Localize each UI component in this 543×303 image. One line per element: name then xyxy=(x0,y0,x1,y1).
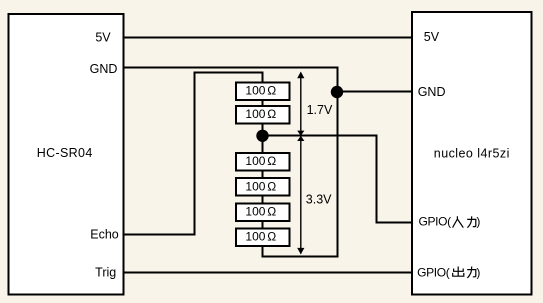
wire Echo (right, up, right into top of divider) xyxy=(123,73,263,235)
svg-text:100Ω: 100Ω xyxy=(245,154,276,168)
node junction dot at divider tap xyxy=(256,130,268,142)
svg-text:nucleo l4r5zi: nucleo l4r5zi xyxy=(434,146,510,160)
nucleo l4r5zi board U2 xyxy=(412,12,532,295)
wire divider interconnects (vertical at x=262.3) xyxy=(262,100,264,230)
svg-text:GND: GND xyxy=(418,85,446,99)
svg-text:Echo: Echo xyxy=(90,228,119,242)
svg-text:5V: 5V xyxy=(95,31,111,45)
wire 5V (HC-SR04 5V to nucleo 5V) xyxy=(123,37,412,39)
svg-text:): ) xyxy=(476,214,480,228)
resistor R5 100ohm xyxy=(236,204,290,222)
svg-text:1.7V: 1.7V xyxy=(307,103,333,117)
svg-text:HC-SR04: HC-SR04 xyxy=(37,146,93,160)
svg-text:GND: GND xyxy=(90,62,118,76)
svg-text:5V: 5V xyxy=(424,30,440,44)
resistor R3 100ohm xyxy=(236,153,290,171)
resistor R2 100ohm xyxy=(236,106,290,124)
dimension arrow 1.7V (Echo level to tap level) xyxy=(297,72,304,136)
pin label GPIO(input) xyxy=(419,214,481,228)
pin label GPIO(output) xyxy=(417,266,480,280)
kanji RYOKU (force) xyxy=(467,216,476,227)
kanji SHUTSU (exit) xyxy=(453,267,464,277)
svg-text:100Ω: 100Ω xyxy=(245,179,276,193)
svg-text:): ) xyxy=(476,266,480,280)
kanji NYUU (enter) xyxy=(453,216,464,227)
dimension arrow 3.3V (tap level to GND level) xyxy=(297,136,304,255)
resistor R1 100ohm xyxy=(236,83,290,101)
resistor R6 100ohm xyxy=(236,229,290,247)
node junction dot on GND rail xyxy=(331,86,343,98)
kanji RYOKU (force) xyxy=(467,267,476,278)
svg-text:3.3V: 3.3V xyxy=(306,193,332,207)
wire tap (divider midpoint to nucleo GPIO input) xyxy=(263,136,413,223)
svg-text:GPIO(: GPIO( xyxy=(417,266,450,280)
svg-text:100Ω: 100Ω xyxy=(245,107,276,121)
resistor R4 100ohm xyxy=(236,178,290,196)
svg-text:GPIO(: GPIO( xyxy=(419,214,452,228)
HC-SR04 module U1 xyxy=(9,14,124,295)
svg-text:Trig: Trig xyxy=(95,266,116,280)
wire Trig (HC-SR04 Trig to nucleo GPIO output) xyxy=(123,272,412,274)
wire GND branch to nucleo GND pin xyxy=(338,91,413,93)
svg-text:100Ω: 100Ω xyxy=(245,230,276,244)
svg-text:100Ω: 100Ω xyxy=(245,84,276,98)
svg-text:100Ω: 100Ω xyxy=(245,205,276,219)
wire GND (HC-SR04 GND right, down at x=337.8, left along bottom to divider) xyxy=(123,68,338,257)
